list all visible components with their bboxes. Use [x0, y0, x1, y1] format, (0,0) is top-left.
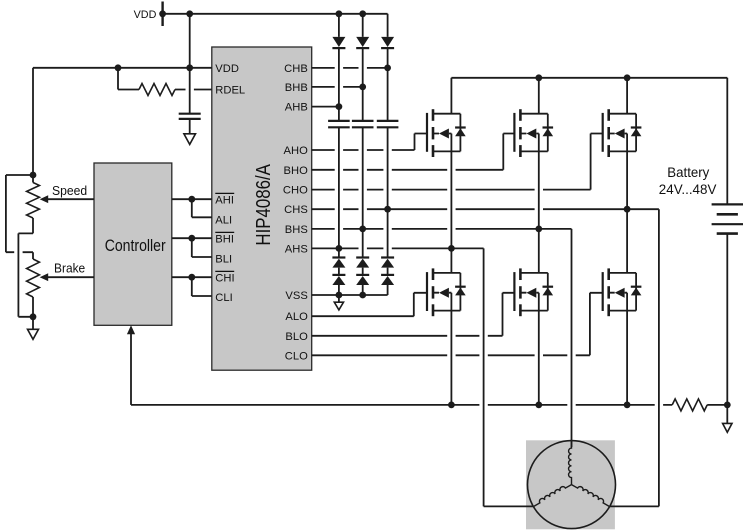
svg-text:RDEL: RDEL	[215, 85, 245, 97]
svg-text:ALI: ALI	[215, 214, 232, 226]
svg-text:AHS: AHS	[285, 243, 308, 255]
svg-text:24V...48V: 24V...48V	[659, 181, 717, 197]
svg-text:BHO: BHO	[284, 165, 309, 177]
svg-text:CLI: CLI	[215, 292, 232, 304]
svg-text:VSS: VSS	[285, 290, 307, 302]
svg-text:AHB: AHB	[285, 102, 308, 114]
svg-text:BLI: BLI	[215, 253, 232, 265]
svg-text:CHB: CHB	[284, 63, 308, 75]
svg-text:Speed: Speed	[52, 183, 87, 198]
svg-text:CHO: CHO	[283, 185, 308, 197]
svg-text:VDD: VDD	[215, 63, 239, 75]
svg-text:Controller: Controller	[105, 236, 166, 255]
svg-text:Brake: Brake	[54, 261, 85, 276]
svg-text:AHO: AHO	[284, 145, 309, 157]
svg-text:ALO: ALO	[285, 311, 308, 323]
svg-text:CLO: CLO	[285, 350, 308, 362]
svg-text:HIP4086/A: HIP4086/A	[253, 164, 275, 246]
svg-text:BLO: BLO	[285, 331, 308, 343]
svg-text:BHI: BHI	[215, 233, 234, 245]
svg-text:BHB: BHB	[285, 82, 308, 94]
svg-text:CHI: CHI	[215, 272, 234, 284]
svg-text:AHI: AHI	[215, 194, 234, 206]
svg-text:BHS: BHS	[285, 224, 308, 236]
svg-text:CHS: CHS	[284, 204, 308, 216]
svg-text:VDD: VDD	[134, 9, 157, 21]
svg-text:Battery: Battery	[667, 164, 709, 180]
